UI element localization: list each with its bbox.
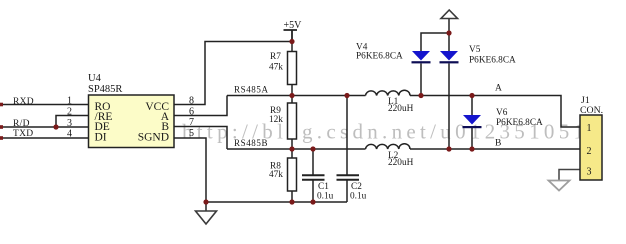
wire V6 drop: [471, 96, 473, 150]
svg-text:3: 3: [587, 167, 592, 178]
svg-text:U4: U4: [88, 73, 102, 84]
node +5V rail: [289, 39, 294, 44]
wire end nub R/D: [0, 125, 3, 129]
node RS485B / C1: [310, 146, 315, 151]
svg-text:0.1u: 0.1u: [350, 191, 367, 201]
svg-text:P6KE6.8CA: P6KE6.8CA: [496, 118, 543, 128]
wire C2 stubs: [346, 96, 348, 203]
wire pin5 SGND to ground: [174, 138, 206, 202]
wire RS485A line: [227, 96, 580, 128]
svg-text:2: 2: [587, 146, 592, 157]
svg-text:SP485R: SP485R: [88, 84, 122, 95]
svg-text:R7: R7: [270, 52, 281, 62]
svg-text:220uH: 220uH: [388, 158, 414, 168]
wire pin6 A riser: [174, 96, 227, 116]
diode V4: [412, 51, 431, 63]
wire R8 stubs: [291, 149, 293, 202]
svg-text:SGND: SGND: [138, 131, 169, 143]
earth ground top: [441, 10, 458, 19]
svg-text:12k: 12k: [269, 115, 283, 125]
svg-text:A: A: [495, 84, 502, 94]
wire net pin2: [56, 116, 89, 128]
svg-text:P6KE6.8CA: P6KE6.8CA: [469, 56, 516, 66]
resistor R7: [288, 52, 297, 85]
svg-text:1: 1: [587, 123, 592, 134]
svg-text:V5: V5: [469, 45, 481, 55]
ground earth top stub: [448, 19, 450, 34]
svg-text:R/D: R/D: [13, 119, 30, 129]
svg-text:8: 8: [189, 96, 194, 107]
node A / V4: [418, 93, 423, 98]
svg-text:V6: V6: [496, 108, 508, 118]
svg-text:0.1u: 0.1u: [317, 191, 334, 201]
wire R7 stubs: [291, 42, 293, 96]
svg-text:6: 6: [189, 107, 194, 118]
op chip U4 body: [89, 95, 175, 148]
wire end nub RXD: [0, 103, 3, 107]
svg-text:7: 7: [189, 117, 194, 128]
resistor R9: [288, 103, 297, 139]
svg-text:P6KE6.8CA: P6KE6.8CA: [356, 52, 403, 62]
svg-text:TXD: TXD: [13, 129, 33, 139]
svg-text:RS485B: RS485B: [234, 138, 268, 148]
diode V5: [440, 51, 459, 63]
node RS485B / R9 R8: [289, 146, 294, 151]
node pin2/pin3 junction: [53, 124, 58, 129]
svg-text:RS485A: RS485A: [234, 85, 269, 95]
node B / V5: [446, 146, 451, 151]
wire R9 stubs: [291, 96, 293, 150]
node gnd pin5: [203, 199, 208, 204]
node RS485A / R7: [289, 93, 294, 98]
node B / V6: [469, 146, 474, 151]
wire pin8 VCC to +5V rail: [174, 42, 292, 105]
power +5V symbol: [284, 30, 298, 42]
svg-text:47k: 47k: [269, 170, 283, 180]
wire end nub TXD: [0, 136, 3, 140]
node RS485A / C2: [344, 93, 349, 98]
wire C1 stubs: [312, 149, 314, 202]
wire TXD to pin4: [2, 137, 89, 139]
svg-text:2: 2: [67, 107, 72, 118]
wire RS485B line: [227, 148, 580, 150]
wire V4 riser: [421, 33, 449, 96]
wire V5 drop: [448, 33, 450, 149]
svg-text:47k: 47k: [269, 63, 283, 73]
svg-text:DI: DI: [95, 131, 107, 143]
svg-text:B: B: [495, 138, 501, 148]
connector J1 body: [580, 115, 602, 180]
svg-text:5: 5: [189, 128, 194, 139]
inductor L2 220uH: [366, 144, 411, 149]
svg-text:RXD: RXD: [13, 97, 34, 107]
wire pin7 B riser: [174, 127, 227, 150]
wire RXD to pin1: [2, 104, 89, 106]
node A / V6: [469, 93, 474, 98]
svg-text:3: 3: [67, 118, 72, 129]
diode V6: [463, 115, 482, 128]
svg-text:CON.: CON.: [580, 105, 603, 116]
node earth rail: [446, 30, 451, 35]
capacitor C2: [337, 175, 360, 180]
svg-text:4: 4: [67, 129, 72, 140]
wire R/D to pin3: [2, 126, 89, 128]
ground J1 pin3: [549, 170, 581, 191]
svg-text:+5V: +5V: [284, 20, 303, 31]
inductor L1 220uH: [366, 90, 411, 95]
ground (signal, bottom left): [196, 202, 217, 224]
svg-text:220uH: 220uH: [388, 104, 414, 114]
node gnd C1: [310, 199, 315, 204]
capacitor C1: [302, 175, 325, 180]
wire ground rail: [206, 201, 347, 203]
node gnd R8: [289, 199, 294, 204]
resistor R8: [288, 158, 297, 191]
svg-text:1: 1: [67, 96, 72, 107]
